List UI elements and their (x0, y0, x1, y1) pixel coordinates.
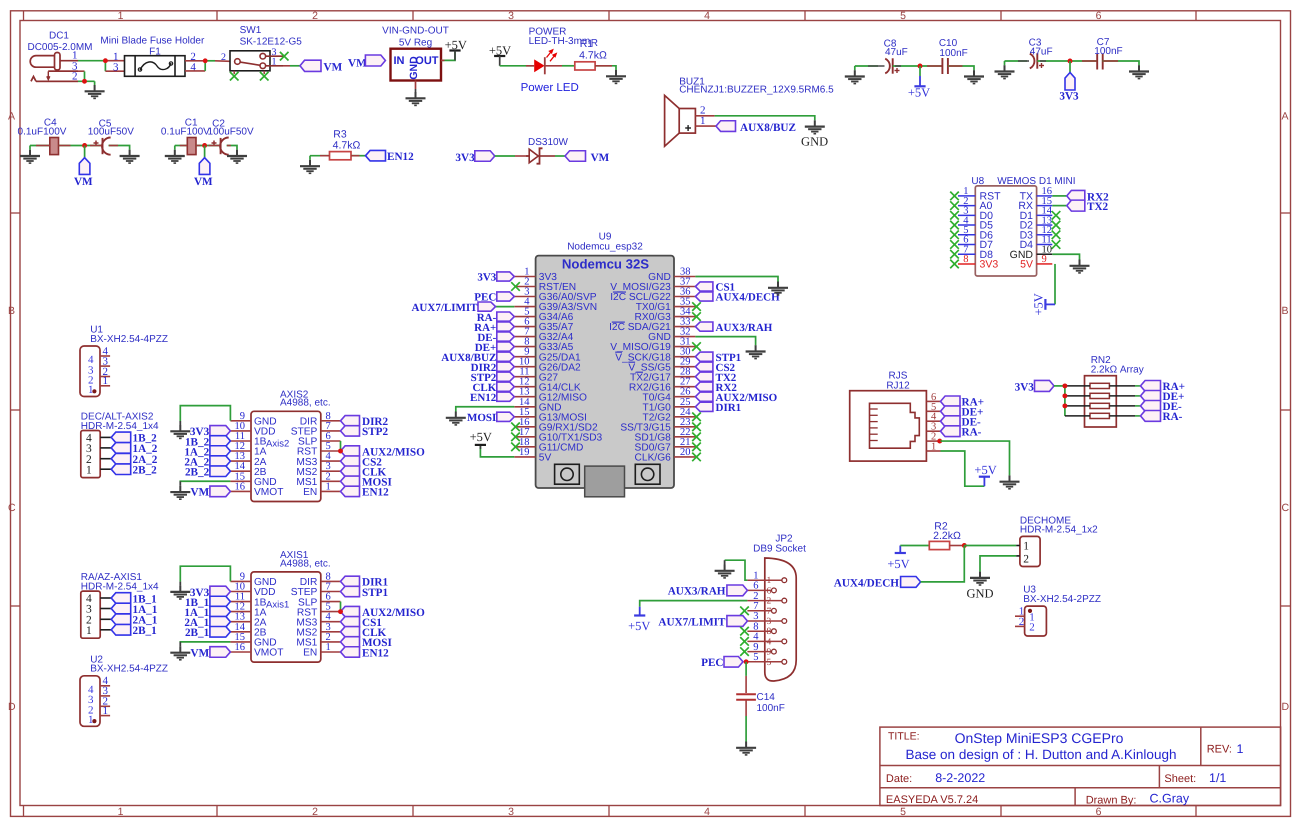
svg-text:7: 7 (767, 607, 772, 617)
svg-text:8-2-2022: 8-2-2022 (935, 771, 985, 785)
svg-text:HDR-M-2.54_1x4: HDR-M-2.54_1x4 (81, 421, 159, 432)
svg-text:AUX7/LIMIT: AUX7/LIMIT (411, 302, 478, 314)
AXIS1 pin 1 EN (321, 651, 341, 653)
net flag DIR2 at U9 pin 10 (497, 362, 515, 371)
U8 pin 13 D2 stub (1037, 224, 1053, 226)
U2 pin 2 stub (100, 705, 110, 707)
ground symbol at C8 left (845, 70, 865, 83)
svg-text:CHENZJ1:BUZZER_12X9.5RM6.5: CHENZJ1:BUZZER_12X9.5RM6.5 (679, 84, 834, 95)
JP2 pin 9 stub and pad circle (747, 651, 771, 653)
svg-text:AUX8/BUZ: AUX8/BUZ (740, 122, 796, 134)
junction node 3V3 C3/C7 (1068, 59, 1073, 64)
svg-text:100nF: 100nF (939, 48, 967, 59)
svg-text:A4988, etc.: A4988, etc. (280, 558, 331, 569)
IC U8 WEMOS D1 MINI body (975, 186, 1036, 276)
JP2 pin 2 stub and pad circle (747, 600, 782, 602)
IC AXIS2 A4988 body (251, 411, 321, 501)
svg-text:EN12: EN12 (470, 392, 497, 404)
net flag AUX2/MISO at AXIS1 RST (341, 606, 360, 616)
net flag AUX7/LIMIT at U9 pin 4 (496, 306, 515, 308)
U2 pin 4 stub (100, 685, 110, 687)
U9 pin 33 I2C SDA/G21 (674, 326, 695, 328)
net wire 3V3 flag to diode (495, 155, 515, 157)
net flag RA- at RJS (941, 426, 961, 437)
connector JP2 DB9 shell (765, 558, 796, 681)
net wire DC1 pin1 junction branch down to F1 pin3 (104, 61, 106, 71)
svg-text:Nodemcu 32S: Nodemcu 32S (562, 256, 649, 271)
svg-text:3V3: 3V3 (1059, 91, 1079, 103)
U9 pin 16 G9/RX1/SD2 (514, 426, 535, 428)
RJS pin 4 stub (926, 420, 940, 422)
svg-text:VM: VM (191, 647, 210, 659)
JP2 pin 5 stub and pad circle (747, 661, 782, 663)
U9 pin 17 G10/TX1/SD3 (514, 436, 535, 438)
capacitor C2 polarized plus sign (212, 141, 217, 146)
capacitor C5 polarized plus sign (94, 141, 99, 146)
net wire RN2 input bus vertical (1064, 386, 1066, 416)
U8 pin 10 GND stub (1037, 253, 1053, 255)
U1 pin 2 stub (100, 376, 110, 378)
net flag TX2 (1067, 200, 1085, 211)
net wire RJS pin1 to +5V (941, 451, 985, 486)
ground symbol at RJS pin2 (1000, 475, 1020, 488)
svg-text:3V3: 3V3 (455, 152, 475, 164)
net flag CLK at AXIS1 MS2 (341, 627, 360, 637)
U9 pin 11 G27 (514, 376, 535, 378)
U9 pin name overline I2C SCL (613, 291, 626, 293)
RJS pin 5 stub (926, 410, 940, 412)
svg-text:+5V: +5V (445, 38, 467, 52)
svg-text:VM: VM (74, 176, 93, 188)
net flag 3V3 at AXIS2 VDD (210, 426, 231, 437)
net flag 1B_2 at DEC/ALT-AXIS2 pin 4 (111, 432, 131, 443)
svg-text:C: C (8, 502, 16, 514)
svg-text:STP2: STP2 (362, 426, 389, 438)
U9 pin 37 V_MOSI/G23 (674, 286, 695, 288)
net wire AXIS2 pin15 GND to ground (180, 480, 230, 482)
net wire ground to R3 (310, 155, 330, 157)
ground symbol at U9 pin32 (746, 345, 766, 358)
title block REV cell divider (1200, 727, 1202, 765)
U9 pin 9 G25/DA1 (514, 356, 535, 358)
svg-text:BX-XH2.54-4PZZ: BX-XH2.54-4PZZ (90, 664, 168, 675)
svg-text:RA-: RA- (1163, 411, 1183, 423)
U9 pin 15 G13/MOSI (514, 416, 535, 418)
net wire junction to DECHOME pin1 (964, 545, 1016, 547)
AXIS2 pin 3 MS2 (321, 470, 341, 472)
pin segment red C10 right (949, 65, 963, 67)
U8 pin 11 D4 stub (1037, 244, 1053, 246)
no-connect X at U9 pin 23 (692, 423, 701, 432)
svg-text:EN12: EN12 (387, 151, 414, 163)
svg-text:AUX3/RAH: AUX3/RAH (716, 322, 773, 334)
net flag MOSI at AXIS2 MS1 (341, 476, 360, 486)
svg-text:REV:: REV: (1207, 744, 1232, 756)
RJS pin 1 stub (926, 450, 940, 452)
svg-text:CLK/G6: CLK/G6 (635, 453, 672, 464)
svg-text:GND: GND (801, 134, 828, 148)
net wire C4 row (30, 145, 50, 147)
net wire C14 to ground (745, 700, 747, 716)
net wire DC1 pin3 elbow (48, 70, 84, 72)
U1 pin1 polarity dot (92, 389, 96, 393)
wire ground stub DC1 (94, 81, 96, 85)
svg-text:Base on design of : H. Dutton: Base on design of : H. Dutton and A.Kinl… (906, 747, 1177, 762)
RA/AZ-AXIS1 pin 4 stub (100, 597, 111, 599)
U1 pin 1 stub (100, 385, 110, 387)
net flag 3V3 at U9 pin 1 (497, 272, 515, 281)
svg-text:VM: VM (324, 61, 343, 73)
AXIS1 pin 9 GND (230, 580, 251, 582)
AXIS2 pin 4 MS3 (321, 460, 341, 462)
ground symbol at U8 (1070, 260, 1090, 273)
svg-text:C14: C14 (757, 692, 776, 703)
pin segment red C10 left (927, 65, 942, 67)
ground symbol at C4 left (20, 150, 40, 163)
U9 pin 19 5V (514, 456, 535, 458)
U9 pin name overline I2C SDA (612, 321, 625, 323)
net wire C3 row left ground (1005, 60, 1028, 62)
ground symbol at C2 (227, 150, 247, 163)
net flag EN12 (366, 150, 386, 161)
RN2 element 1 resistor body (1090, 383, 1109, 388)
svg-text:Axis2: Axis2 (266, 439, 289, 450)
svg-text:2B_2: 2B_2 (133, 465, 158, 477)
svg-text:1: 1 (272, 56, 277, 67)
U9 pin 10 G26/DA2 (514, 366, 535, 368)
AXIS2 pin 14 2B (230, 470, 251, 472)
svg-text:16: 16 (235, 481, 246, 492)
junction node F1 pin2/SW1 (203, 58, 208, 63)
ground symbol at C1 left (165, 150, 185, 163)
U1 pin 4 stub (100, 355, 110, 357)
net flag 2A_2 at DEC/ALT-AXIS2 pin 2 (111, 453, 131, 464)
net flag AUX4/DECH at U9 pin 36 (695, 292, 713, 301)
svg-text:Mini Blade Fuse Holder: Mini Blade Fuse Holder (100, 36, 205, 47)
net flag RA+ at U9 pin 6 (497, 322, 515, 331)
DEC/ALT-AXIS2 pin 1 stub (100, 468, 111, 470)
svg-text:2: 2 (1019, 616, 1025, 628)
net flag DIR1 at U9 pin 25 (695, 402, 713, 411)
U8 pin 7 D8 stub with no-connect X (958, 253, 975, 255)
svg-text:8: 8 (963, 254, 968, 265)
svg-text:OnStep MiniESP3 CGEPro: OnStep MiniESP3 CGEPro (955, 730, 1124, 746)
net wire C3 to junction to C7 (1037, 60, 1096, 62)
svg-text:+5V: +5V (1032, 293, 1046, 315)
junction node VM net C1/C2 (202, 143, 207, 148)
U9 pin 32 GND (674, 336, 695, 338)
net wire C2 to ground (227, 146, 237, 150)
svg-text:5V: 5V (539, 453, 552, 464)
junction node +5V C8/C10 (918, 64, 923, 69)
net flag TX2 at U9 pin 28 (695, 372, 713, 381)
connector DECHOME HDR-M-2.54_1x2 body (1020, 536, 1040, 566)
buzzer pin1 stub (695, 125, 716, 127)
net wire AXIS2 SLP to RST (340, 441, 342, 451)
AXIS2 pin 8 DIR (321, 420, 341, 422)
LED D symbol (526, 50, 562, 75)
capacitor C4 body (50, 138, 59, 155)
RJS pin 6 stub (926, 400, 940, 402)
svg-text:5: 5 (900, 10, 906, 22)
connector U1 BX-XH2.54-4PZZ body (80, 346, 100, 397)
regulator ground stem (415, 89, 417, 92)
svg-text:1/1: 1/1 (1209, 771, 1226, 785)
net flag STP1 at U9 pin 30 (695, 352, 713, 361)
svg-text:5: 5 (767, 658, 772, 668)
power +5V symbol below C8/C10 (919, 76, 921, 86)
capacitor C3 plates polarized (1030, 53, 1038, 68)
no-connect X at U9 pin 21 (692, 443, 701, 452)
AXIS1 pin 16 VMOT (230, 651, 251, 653)
U2 pin1 polarity dot (92, 719, 96, 723)
junction node R2/DECHOME (962, 543, 967, 548)
power bar +5V at regulator (449, 49, 460, 51)
net flag 2B_1 at RA/AZ-AXIS1 pin 1 (111, 625, 131, 636)
net flag VM to regulator IN (365, 55, 385, 66)
U9 pin 27 RX2/G16 (674, 386, 695, 388)
net wire R2 to junction (950, 545, 965, 547)
net wire PEC junction down to C14 (745, 662, 747, 676)
svg-text:100nF: 100nF (757, 703, 785, 714)
net wire C1 to junction to C2 (196, 145, 220, 147)
fuse holder F1 body (125, 56, 186, 77)
net flag 3V3 at AXIS1 VDD (210, 586, 231, 597)
no-connect X at SW1 bottom right (263, 71, 265, 74)
svg-text:F1: F1 (149, 46, 161, 57)
U9 pin 34 RX0/G3 (674, 316, 695, 318)
svg-text:1: 1 (118, 806, 124, 818)
net flag CS2 at AXIS2 MS3 (341, 456, 360, 466)
ground symbol at C3 left (995, 65, 1015, 78)
net flag RA+ at RJS (941, 396, 961, 407)
svg-text:EN: EN (303, 487, 317, 498)
pin segment gray C8 right (895, 65, 901, 67)
junction node RJS pin2 (937, 439, 942, 444)
svg-text:1: 1 (700, 115, 706, 127)
pin segment red C4 right (59, 145, 71, 147)
net flag RX2 at U9 pin 27 (695, 382, 713, 391)
net flag 2B_2 at DEC/ALT-AXIS2 pin 1 (111, 464, 131, 475)
svg-text:4.7kΩ: 4.7kΩ (579, 50, 607, 62)
svg-text:D: D (1282, 701, 1290, 713)
svg-text:DB9 Socket: DB9 Socket (753, 544, 806, 555)
U9 USB tab (585, 466, 625, 497)
svg-text:B: B (8, 305, 15, 317)
resistor R2 body (929, 541, 949, 549)
net flag MOSI at U9 pin 15 (497, 412, 515, 421)
pin segment red C4 left (36, 145, 50, 147)
no-connect X at JP2 pin7 (740, 607, 749, 616)
U8 pin 16 TX stub (1037, 195, 1053, 197)
U8 pin 15 RX stub (1037, 205, 1053, 207)
svg-text:VIN-GND-OUT: VIN-GND-OUT (382, 26, 449, 37)
JP2 pin 6 stub and pad circle (747, 589, 771, 591)
U3 polarity dot (1028, 609, 1032, 613)
net wire diode to VM flag (555, 155, 565, 157)
no-connect X at U9 pin 34 (692, 312, 701, 321)
AXIS2 pin 9 GND (230, 420, 251, 422)
AXIS1 pin 13 2A (230, 621, 251, 623)
net flag 2A_1 at RA/AZ-AXIS1 pin 2 (111, 614, 131, 625)
svg-text:RJ12: RJ12 (886, 381, 910, 392)
net wire C4 to junction to C5 (59, 145, 102, 147)
title block Sheet cell divider (1158, 766, 1160, 788)
U9 pin 3 G36/A0/SVP (514, 296, 535, 298)
DEC/ALT-AXIS2 pin 4 stub (100, 436, 111, 438)
net wire F1 pin4 up to pin2 junction (185, 70, 205, 72)
svg-text:47uF: 47uF (1030, 46, 1053, 57)
net flag RA- at U9 pin 5 (497, 312, 515, 321)
title block row line under title (880, 765, 1281, 767)
svg-text:1: 1 (88, 714, 94, 726)
net flag AUX3/RAH at JP2 pin6 (727, 585, 748, 596)
net flag 1A_1 at RA/AZ-AXIS1 pin 3 (111, 603, 131, 614)
net flag 3V3 at RN2 (1035, 380, 1055, 391)
connector RA/AZ-AXIS1 HDR-M-2.54_1x4 body (81, 591, 100, 638)
junction node RN2 bus row2 (1062, 393, 1067, 398)
U9 pin 25 T1/G0 (674, 406, 695, 408)
U9 pin name overline V_SS (628, 361, 635, 363)
U9 pin 18 G11/CMD (514, 446, 535, 448)
net flag 2B_1 at AXIS1 (210, 627, 231, 638)
U8 pin 2 A0 stub with no-connect X (958, 205, 975, 207)
U9 pin 14 GND (514, 406, 535, 408)
svg-text:3: 3 (113, 61, 119, 73)
net wire RJS pin2 to ground (941, 441, 1010, 475)
svg-text:EN12: EN12 (362, 487, 389, 499)
net wire U9 pin14 GND to ground (456, 407, 515, 412)
U9 pin 22 SD1/G8 (674, 436, 695, 438)
U9 pin 36 I2C SCL/G22 (674, 296, 695, 298)
net flag 3V3 below junction (1069, 61, 1071, 73)
svg-text:+5V: +5V (908, 86, 930, 100)
svg-text:9: 9 (1042, 254, 1047, 265)
svg-text:100uF50V: 100uF50V (88, 126, 134, 137)
svg-text:4: 4 (767, 637, 772, 647)
AXIS2 pin 15 GND (230, 480, 251, 482)
U9 pin 13 G12/MISO (514, 396, 535, 398)
svg-text:BX-XH2.54-4PZZ: BX-XH2.54-4PZZ (90, 334, 168, 345)
svg-text:2: 2 (312, 806, 318, 818)
net flag DE+ at U9 pin 8 (497, 342, 515, 351)
net wire U8 TX to RX2 flag (1052, 195, 1067, 197)
connector RJS RJ12 body (850, 391, 927, 461)
svg-text:16: 16 (235, 642, 246, 653)
svg-text:HDR-M-2.54_1x4: HDR-M-2.54_1x4 (81, 581, 159, 592)
net wire buzzer pin2 to ground (715, 116, 815, 121)
svg-text:VM: VM (194, 176, 213, 188)
net flag 3V3 at DS310W (475, 151, 495, 162)
net wire LED cathode to R1 (562, 65, 575, 67)
svg-text:2B_2: 2B_2 (185, 467, 210, 479)
net wire U9 pin38 GND to ground right (695, 277, 778, 282)
net wire C5 to ground (109, 146, 130, 150)
ground symbol at U9 pin14 (446, 412, 466, 425)
net flag EN12 at AXIS1 EN (341, 647, 360, 657)
net flag 1A_2 at AXIS2 (210, 446, 231, 457)
U9 mounting hole left (555, 464, 580, 484)
U9 pin name overline V_SCK (615, 351, 622, 353)
ground symbol at R1 (606, 70, 626, 83)
net flag EN12 at U9 pin 13 (497, 392, 515, 401)
pin segment red C1 left (180, 145, 188, 147)
net flag VM at AXIS1 VMOT (210, 647, 231, 658)
svg-text:4: 4 (704, 10, 710, 22)
ground symbol at regulator (406, 92, 426, 105)
net wire U8 GND to ground (1052, 254, 1079, 259)
RN2 element 3 right lead (1109, 405, 1135, 407)
net flag EN12 at AXIS2 EN (341, 486, 360, 496)
U9 pin 1 3V3 (514, 276, 535, 278)
svg-text:VM: VM (191, 487, 210, 499)
svg-text:AUX4/DECH: AUX4/DECH (716, 292, 781, 304)
no-connect X at U9 pin 20 (692, 453, 701, 462)
net flag DE- at RJS (941, 416, 961, 427)
U9 pin 8 G33/A5 (514, 346, 535, 348)
svg-text:1: 1 (103, 375, 109, 387)
net wire U8 5V down to +5V (1054, 264, 1056, 304)
U9 pin 28 TX2/G17 (674, 376, 695, 378)
no-connect X at U9 pin 35 (692, 302, 701, 311)
no-connect X at U9 pin 24 (692, 413, 701, 422)
RN2 element 2 resistor body (1090, 393, 1109, 398)
IC U9 Nodemcu 32S body (536, 256, 674, 488)
net flag VM at SW1 (300, 60, 321, 71)
connector U2 BX-XH2.54-4PZZ body (80, 676, 100, 727)
svg-text:AUX4/DECH: AUX4/DECH (834, 577, 900, 589)
net wire R3 to EN12 flag (351, 155, 366, 157)
svg-text:WEMOS D1 MINI: WEMOS D1 MINI (997, 176, 1075, 187)
svg-text:9: 9 (767, 648, 772, 658)
U9 pin 4 G39/A3/SVN (514, 306, 535, 308)
svg-text:1: 1 (88, 384, 94, 396)
AXIS1 pin 6 SLP (321, 601, 341, 603)
U9 pin 30 V_SCK/G18 (674, 356, 695, 358)
border row ticks right (1281, 212, 1291, 214)
U9 pin 24 T2/G2 (674, 416, 695, 418)
net flag DE+ at RJS (941, 406, 961, 417)
svg-text:3: 3 (508, 806, 514, 818)
AXIS1 pin 4 MS3 (321, 621, 341, 623)
U9 pin 31 V_MISO/G19 (674, 346, 695, 348)
AXIS2 pin 12 1A (230, 450, 251, 452)
net wire 3V3 to RN2 bus (1054, 385, 1065, 387)
svg-text:A4988, etc.: A4988, etc. (280, 398, 331, 409)
ground symbol at R3 (300, 160, 320, 173)
svg-text:+5V: +5V (470, 430, 492, 444)
svg-text:IN: IN (394, 55, 405, 67)
net flag AUX7/LIMIT at JP2 pin3 (727, 616, 748, 627)
net wire F1 pin2 to SW1 pin2 (185, 60, 205, 62)
AXIS2 pin 10 VDD (230, 430, 251, 432)
RA/AZ-AXIS1 pin 1 stub (100, 629, 111, 631)
net wire +5V to LED anode (500, 65, 534, 67)
ground symbol at AXIS2 pin15 (170, 486, 190, 499)
svg-text:1: 1 (931, 442, 936, 453)
net flag MOSI at AXIS1 MS1 (341, 637, 360, 647)
AXIS1 pin 11 1B (230, 601, 251, 603)
net wire regulator OUT to +5V (441, 51, 455, 60)
U2 pin 3 stub (100, 695, 110, 697)
switch SW1 body (230, 51, 270, 71)
DEC/ALT-AXIS2 pin 2 stub (100, 458, 111, 460)
border column ticks top (23, 11, 25, 21)
net flag 1A_2 at DEC/ALT-AXIS2 pin 3 (111, 443, 131, 454)
net flag VM at DS310W (565, 151, 586, 162)
svg-text:2B_1: 2B_1 (185, 627, 210, 639)
resistor R3 body (330, 152, 352, 160)
